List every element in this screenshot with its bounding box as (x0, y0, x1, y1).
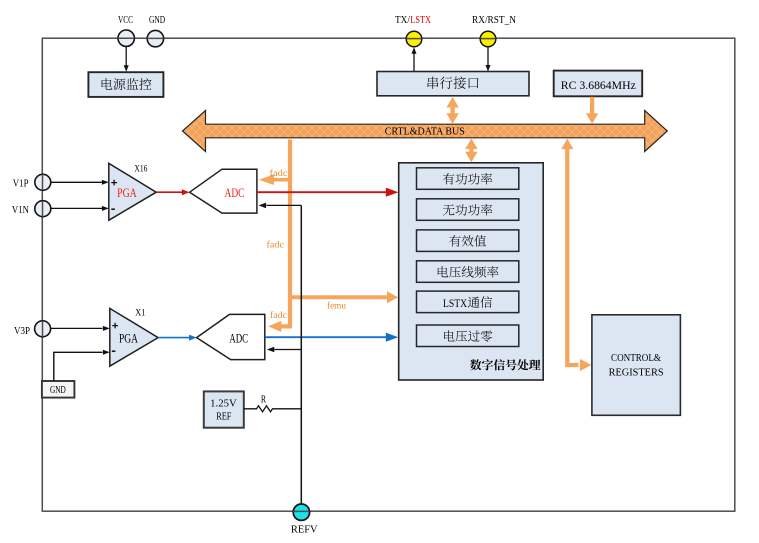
svg-text:fadc: fadc (270, 168, 288, 179)
svg-text:V1P: V1P (13, 178, 29, 189)
svg-text:X16: X16 (134, 163, 147, 173)
label fadc (ADC1) (270, 168, 288, 179)
adc ADC2 (197, 314, 265, 359)
connector serial-bus (bidirectional) (446, 97, 458, 124)
connector fadc stub to ADC1 (259, 174, 290, 185)
amplifier PGA1 (x16) (109, 163, 156, 220)
wire serial to TX (412, 47, 417, 71)
connector RC-bus (586, 97, 598, 124)
block DSP 数字信号处理 (399, 163, 544, 380)
chip boundary (42, 38, 735, 511)
pin REFV (291, 504, 318, 536)
connector femu branch to DSP (290, 291, 398, 303)
wire ADC1 to DSP (red) (257, 188, 398, 197)
svg-text:R: R (261, 395, 266, 406)
label femu (327, 300, 346, 311)
pin V1N (12, 201, 51, 217)
svg-text:fadc: fadc (267, 239, 285, 250)
pin RX/RST_N (472, 15, 516, 47)
label DSP 数字信号处理 (470, 359, 540, 370)
svg-text:RX/RST_N: RX/RST_N (472, 15, 516, 26)
svg-text:ADC: ADC (225, 185, 245, 200)
amplifier PGA2 (x1) (110, 308, 158, 367)
svg-text:ADC: ADC (229, 330, 248, 345)
svg-text:REGISTERS: REGISTERS (609, 367, 664, 379)
svg-text:REFV: REFV (291, 525, 318, 536)
sub-block zero crossing 电压过零 (417, 325, 519, 347)
wire ADC2 to DSP (blue) (265, 333, 399, 342)
wire GND to PGA2 minus (54, 350, 110, 381)
sub-block active power 有功功率 (417, 168, 519, 190)
svg-text:V3P: V3P (14, 326, 30, 337)
pin V3P (14, 321, 51, 337)
label R (261, 395, 266, 406)
wire V1N to PGA1 minus (51, 206, 109, 211)
wire ADC1 feedback (259, 203, 302, 209)
svg-text:REF: REF (216, 411, 231, 422)
wire V3P to PGA2 plus (51, 326, 110, 331)
svg-text:PGA: PGA (119, 330, 138, 345)
svg-text:CRTL&DATA BUS: CRTL&DATA BUS (385, 127, 465, 138)
svg-text:V1N: V1N (12, 205, 29, 216)
block GND (signal ground) (42, 381, 75, 398)
svg-text:LSTX: LSTX (443, 298, 468, 310)
svg-text:fadc: fadc (270, 310, 287, 321)
svg-text:X1: X1 (135, 308, 145, 318)
pin TX/LSTX (395, 15, 431, 47)
adc ADC1 (190, 169, 257, 213)
wire V1P to PGA1 plus (51, 180, 109, 185)
bus CRTL&DATA (hatched block arrow) (183, 111, 668, 152)
sub-block LSTX comm LSTX通信 (417, 291, 519, 313)
svg-text:CONTROL&: CONTROL& (611, 352, 661, 364)
wire VCC to power monitor (124, 47, 129, 72)
pin V1P (13, 174, 51, 190)
wire PGA2 to ADC2 (blue) (158, 335, 197, 341)
wire ADC2 feedback (267, 347, 302, 353)
wire PGA1 to ADC1 (red) (156, 189, 189, 195)
wire REFV vertical (300, 205, 302, 504)
svg-text:femu: femu (327, 300, 346, 311)
svg-text:GND: GND (50, 385, 66, 396)
resistor R (244, 406, 301, 412)
connector bus drop fadc/femu (268, 140, 290, 333)
sub-block line frequency 电压线频率 (417, 261, 519, 283)
svg-text:PGA: PGA (117, 185, 137, 200)
block RC 3.6864MHz oscillator (554, 71, 643, 97)
svg-text:1.25V: 1.25V (210, 398, 237, 409)
wire RX to serial (486, 47, 491, 71)
connector bus-control registers (elbow) (561, 139, 591, 372)
label fadc (ADC2) (270, 310, 287, 321)
svg-text:GND: GND (149, 15, 165, 26)
svg-text:TX/: TX/ (395, 15, 410, 26)
svg-text:VCC: VCC (118, 15, 133, 26)
block 1.25V REF (204, 391, 244, 427)
block power monitor 电源监控 (88, 72, 163, 97)
pin GND (top) (147, 15, 165, 47)
svg-text:LSTX: LSTX (410, 15, 431, 26)
block CONTROL & REGISTERS (592, 315, 681, 416)
sub-block rms 有效值 (417, 230, 519, 252)
svg-text:RC 3.6864MHz: RC 3.6864MHz (561, 78, 636, 92)
sub-block reactive power 无功功率 (417, 199, 519, 221)
pin VCC (118, 15, 134, 46)
label fadc (middle) (267, 239, 285, 250)
connector bus-DSP (bidirectional) (465, 139, 477, 163)
block serial interface 串行接口 (377, 72, 529, 96)
bus label CRTL&DATA BUS (385, 127, 465, 138)
